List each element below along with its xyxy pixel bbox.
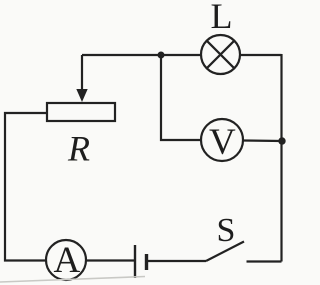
svg-text:S: S	[217, 212, 236, 249]
svg-text:A: A	[54, 240, 81, 281]
svg-text:L: L	[211, 0, 233, 36]
svg-text:R: R	[67, 129, 90, 169]
svg-text:V: V	[209, 122, 236, 163]
